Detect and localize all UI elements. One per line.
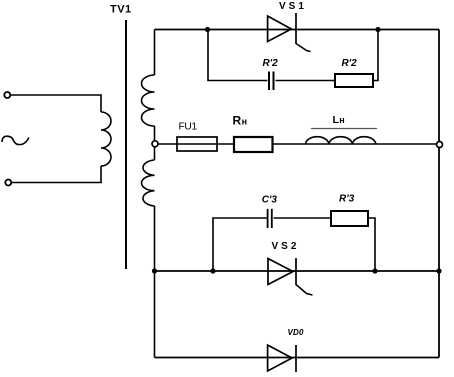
wire between R'2 capacitor and R'2 resistor: [276, 80, 336, 82]
transformer secondary lower winding: [142, 160, 155, 206]
svg-text:Lн: Lн: [333, 114, 345, 126]
transformer core: [125, 20, 127, 269]
resistor Rн: [234, 137, 273, 152]
wire middle rail: [157, 143, 439, 145]
svg-text:VD0: VD0: [288, 328, 305, 337]
node junction left vertical on VS2 rail: [152, 268, 157, 273]
AC source terminal bottom: [5, 180, 11, 186]
wire top rail: [155, 29, 440, 31]
wire C'3 branch left vertical: [213, 218, 267, 271]
svg-text:FU1: FU1: [179, 122, 198, 133]
fuse FU1: [177, 137, 217, 151]
wire VS2 rail: [155, 270, 440, 272]
svg-text:R'2: R'2: [263, 58, 279, 69]
inductor Lн: [305, 129, 377, 145]
wire secondary top vertical: [154, 30, 156, 76]
transformer TV1 primary winding: [101, 112, 111, 166]
node junction top left of R'2 branch: [205, 27, 210, 32]
wire primary bottom to terminal: [12, 166, 102, 183]
svg-text:VS2: VS2: [272, 241, 300, 252]
wire secondary middle: [154, 126, 156, 160]
node junction right rail on VS2 rail: [436, 268, 441, 273]
wire between C'3 and R'3: [274, 217, 332, 219]
wire right rail: [438, 30, 440, 358]
capacitor C'3: [268, 209, 272, 228]
node right rail middle open: [437, 142, 443, 148]
secondary center tap node: [152, 141, 158, 147]
wire bottom rail: [155, 357, 440, 359]
capacitor R'2: [269, 72, 274, 91]
resistor R'3: [331, 211, 368, 226]
node junction R'3 branch right on VS2 rail: [372, 268, 377, 273]
svg-text:R'2: R'2: [342, 58, 358, 69]
wire left lower vertical: [154, 271, 156, 358]
svg-text:TV1: TV1: [110, 4, 132, 16]
node junction top right of R'2 branch: [375, 27, 380, 32]
wire R'2 branch left vertical: [208, 30, 268, 81]
diode VD0: [268, 345, 296, 372]
svg-text:C'3: C'3: [262, 194, 278, 205]
transformer secondary upper winding: [142, 75, 155, 126]
thyristor VS2: [268, 258, 313, 295]
resistor R'2: [335, 74, 373, 87]
wire top terminal to primary: [11, 95, 102, 112]
AC source terminal top: [4, 92, 10, 98]
AC source tilde symbol: [2, 136, 29, 144]
thyristor VS1: [268, 13, 311, 52]
wire secondary bottom vertical: [154, 206, 156, 271]
svg-text:VS1: VS1: [279, 1, 307, 12]
wire R'2 branch right vertical: [373, 30, 378, 81]
node junction C'3 branch left on VS2 rail: [210, 268, 215, 273]
svg-text:Rн: Rн: [233, 113, 248, 127]
svg-text:R'3: R'3: [339, 193, 355, 204]
wire R'3 branch right vertical: [368, 218, 375, 271]
